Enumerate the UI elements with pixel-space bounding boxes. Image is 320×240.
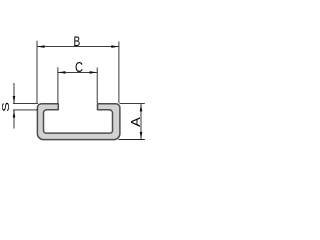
label A (129, 116, 143, 127)
dimension S line upper segment (13, 83, 15, 103)
channel profile (C-section, opening up) (37, 104, 120, 140)
dimension C extension line left (57, 67, 59, 103)
svg-text:S: S (0, 102, 11, 112)
svg-text:B: B (74, 33, 81, 49)
dimension C arrow left (58, 71, 65, 74)
dimension S extension line upper (13, 103, 38, 105)
dimension B extension line right (118, 42, 120, 104)
dimension B arrow left (37, 45, 44, 48)
label B (74, 33, 81, 49)
dimension C arrow right (90, 71, 97, 74)
label S (0, 102, 11, 112)
dimension S extension line lower (13, 109, 38, 111)
dimension C extension line right (96, 68, 98, 104)
dimension B line (37, 46, 119, 48)
dimension A extension line bottom (119, 139, 145, 141)
svg-text:C: C (75, 58, 83, 75)
dimension A arrow down (140, 132, 143, 139)
dimension A line (140, 104, 142, 140)
dimension B extension line left (36, 41, 38, 103)
dimension A arrow up (140, 104, 143, 111)
dimension S arrow up (13, 110, 16, 117)
dimension A extension line top (120, 103, 145, 105)
dimension S line lower segment (13, 110, 15, 128)
dimension C line (58, 71, 97, 73)
svg-text:A: A (129, 116, 143, 127)
dimension B arrow right (111, 45, 118, 48)
dimension S arrow down (13, 96, 16, 103)
label C (75, 58, 83, 75)
